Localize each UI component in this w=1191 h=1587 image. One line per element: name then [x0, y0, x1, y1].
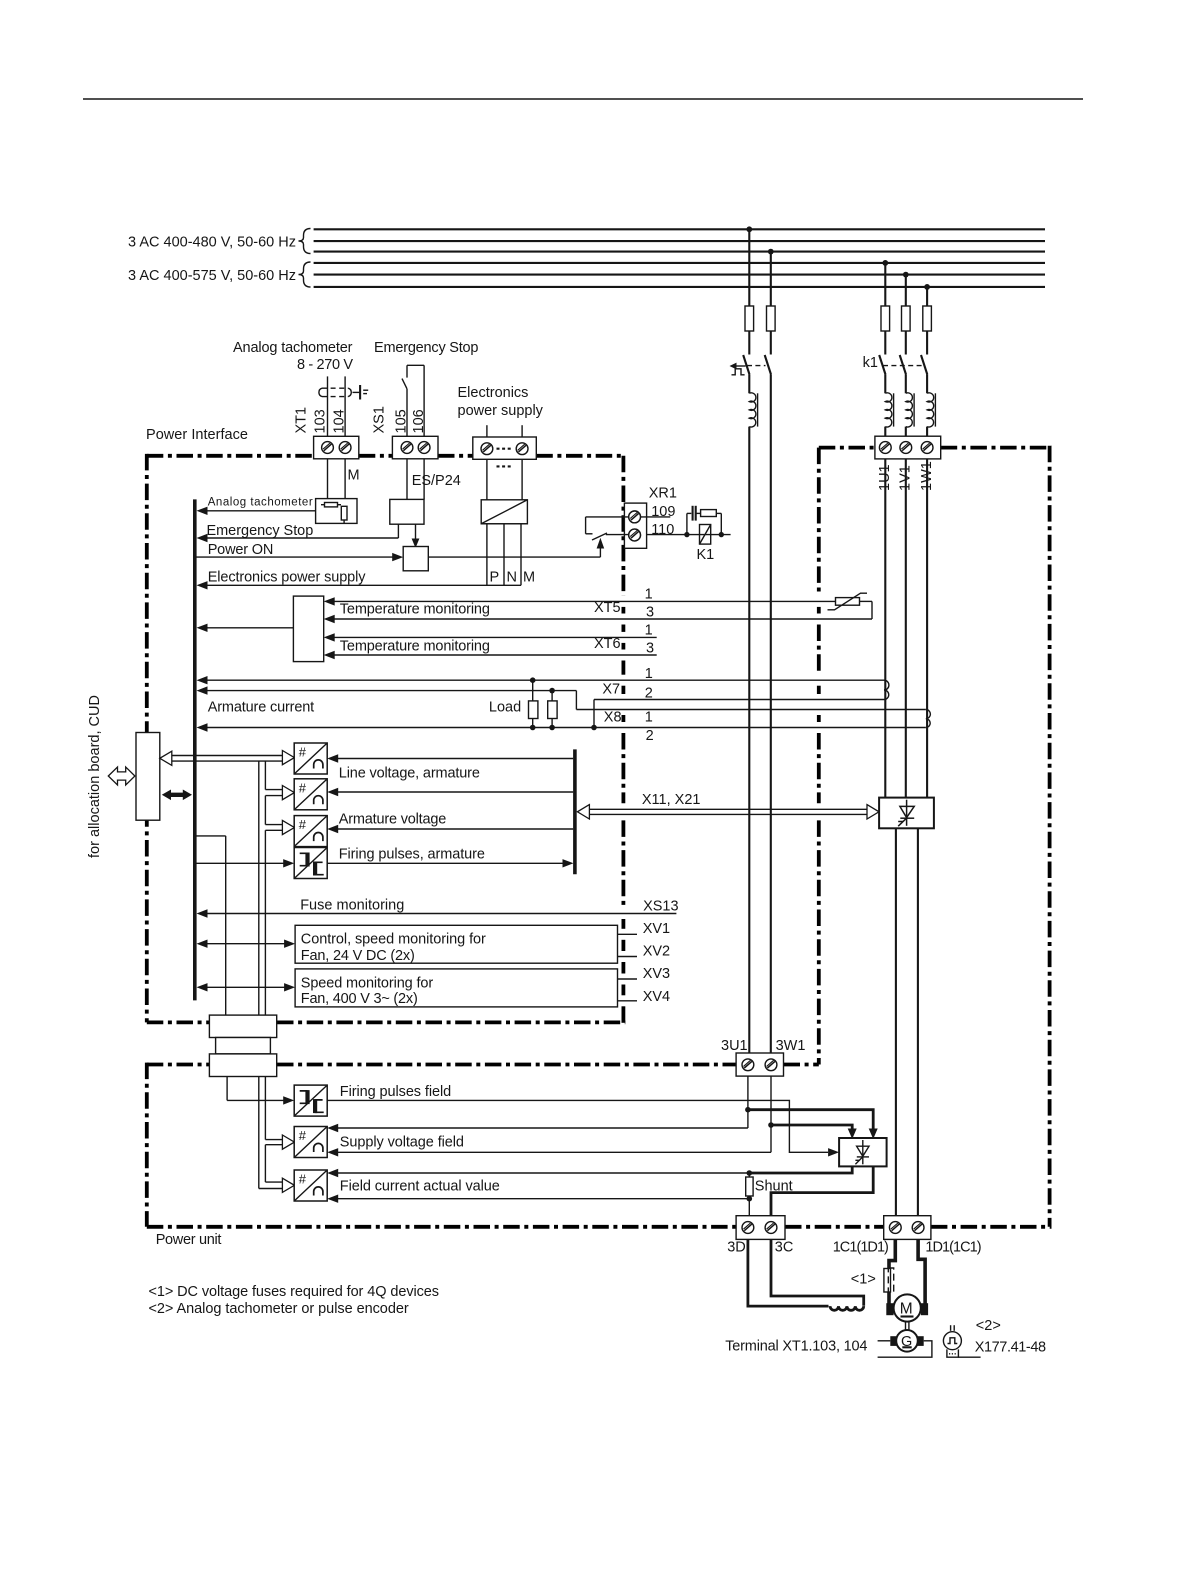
svg-text:Fan, 24 V DC (2x): Fan, 24 V DC (2x) [301, 948, 415, 964]
svg-text:1C1(1D1): 1C1(1D1) [833, 1240, 889, 1256]
shunt [747, 1170, 753, 1176]
board interconnect stack [209, 1015, 276, 1037]
svg-text:P: P [490, 570, 500, 586]
110 wire [606, 534, 629, 536]
field firing block F1 [294, 1085, 327, 1116]
wire field drop A upper [748, 229, 750, 306]
svg-text:105: 105 [393, 409, 409, 433]
wire XS1-105 to ES/P24 box [406, 459, 408, 500]
bus line L4 (400-575 set) [314, 262, 1045, 264]
contactor blade field B [765, 355, 771, 375]
svg-text:110: 110 [651, 522, 674, 538]
motor field winding 3C [771, 1239, 864, 1305]
svg-text:1: 1 [645, 587, 653, 603]
CUD branch vertical right seg3 [264, 830, 266, 1015]
firing pulses field line [327, 1100, 828, 1152]
svg-text:1: 1 [645, 709, 653, 725]
fuse FW [923, 306, 932, 331]
wire tacho 103 [327, 376, 329, 441]
X7/X8 crossover vertical [593, 700, 595, 728]
svg-text:Electronics: Electronics [458, 385, 529, 401]
pair into field block2 [265, 1139, 283, 1141]
power-on actuation arrow [599, 547, 601, 558]
K1 snubber R-C [686, 513, 688, 534]
arrow ES/P24 to power-on box [415, 524, 417, 539]
wires below fuses k1 [884, 331, 886, 355]
line bar to block3 [338, 828, 573, 830]
3W1 wire down [770, 1076, 772, 1152]
svg-text:Terminal XT1.103, 104: Terminal XT1.103, 104 [725, 1338, 867, 1354]
bus line L2 [314, 240, 1045, 242]
wire XT1-104 to tacho box [344, 459, 346, 499]
thermistor [836, 598, 860, 606]
bus line L1 (400-480 set) [314, 228, 1045, 230]
wire XS1-106 to ES/P24 box [423, 459, 425, 500]
branch to firing block 4 (from bus) [195, 835, 226, 837]
CT X8 [926, 710, 931, 728]
terminal 1U1 1V1 1W1 [875, 436, 941, 459]
field thyristor converter [839, 1138, 887, 1166]
XV stubs [618, 933, 638, 935]
Power Interface border left [145, 454, 149, 1023]
analog tachometer row line [206, 510, 316, 512]
svg-text:Analog tachometer: Analog tachometer [208, 497, 313, 509]
thyristor symbol armature [898, 800, 914, 827]
wire armature drop V upper [905, 275, 907, 306]
Power unit border left [145, 1063, 149, 1227]
wire armature drop W upper [926, 287, 928, 306]
svg-text:Armature voltage: Armature voltage [339, 812, 447, 828]
Power Interface border bottom [147, 1021, 210, 1025]
svg-text:Load: Load [489, 700, 521, 716]
node tap L4 armature [882, 260, 888, 266]
svg-text:<2> Analog tachometer or pulse: <2> Analog tachometer or pulse encoder [149, 1301, 409, 1317]
pair into block3 [265, 824, 283, 826]
tacho generator G [890, 1336, 897, 1346]
svg-text:Power unit: Power unit [156, 1232, 222, 1248]
svg-text:X7: X7 [602, 682, 620, 698]
wire below F1 [748, 331, 750, 355]
converter block U1 line voltage [294, 743, 327, 774]
K1 contact circuit: 109 wire [586, 516, 671, 518]
fuse FV [902, 306, 911, 331]
svg-text:k1: k1 [863, 355, 878, 371]
svg-text:2: 2 [646, 728, 654, 744]
svg-text:106: 106 [411, 409, 427, 433]
svg-text:3D: 3D [727, 1240, 746, 1256]
svg-text:N: N [507, 570, 517, 586]
svg-text:3U1: 3U1 [721, 1038, 748, 1054]
svg-text:X177.41-48: X177.41-48 [975, 1339, 1046, 1355]
fuse FU [881, 306, 890, 331]
electronics power supply row line [206, 584, 521, 586]
XT6 line 3 [334, 654, 657, 656]
svg-text:XR1: XR1 [649, 486, 677, 502]
svg-text:<1>: <1> [851, 1271, 876, 1287]
power ON row line [195, 556, 395, 558]
choke V [906, 393, 913, 427]
line bar to block2 [338, 791, 573, 793]
CUD-bus filled arrow [162, 790, 192, 801]
svg-text:XS1: XS1 [372, 406, 388, 433]
K1 wire [647, 534, 731, 536]
brace 400-480 [299, 229, 311, 254]
wires ePS terminal to converter [486, 459, 488, 500]
XT6 line 1 [334, 636, 657, 638]
terminal 3D 3C [736, 1216, 785, 1240]
node tap L1 field line [746, 226, 752, 232]
svg-text:Temperature monitoring: Temperature monitoring [340, 639, 490, 655]
contactor k1 link dashes [883, 365, 922, 367]
wires chokes to 1U1 block [884, 427, 886, 437]
Power unit border bottom [147, 1225, 736, 1229]
pair into field block3 [265, 1181, 283, 1183]
K1 contact blade [592, 533, 607, 540]
fan control box 1 [295, 925, 617, 963]
field AD block F2 [294, 1127, 327, 1158]
fan control box 2 [295, 969, 617, 1007]
Right box border top [819, 446, 875, 450]
line bar to block1 [338, 758, 573, 760]
svg-text:XV1: XV1 [643, 921, 670, 937]
wire field drop B upper [770, 252, 772, 306]
wire XT1-103 to tacho box [327, 459, 329, 499]
wires k1 to chokes [884, 375, 886, 394]
K1 relay coil [700, 525, 711, 545]
wires 1U1/1V1/1W1 to armature converter [884, 459, 886, 798]
terminal 1C1 1D1 [884, 1216, 931, 1240]
pulse encoder [950, 1325, 952, 1331]
svg-text:<2>: <2> [976, 1318, 1001, 1334]
tacho wires [878, 1340, 891, 1342]
pair into block2 [265, 789, 283, 791]
wire field A down to 3U1 [748, 427, 750, 1053]
wire tacho 104 [344, 376, 346, 441]
svg-text:Fan, 400 V 3~ (2x): Fan, 400 V 3~ (2x) [301, 991, 418, 1007]
bus line L6 [314, 286, 1045, 288]
node tap L5 armature [903, 272, 909, 278]
svg-text:K1: K1 [697, 547, 715, 563]
thyristor symbol field [855, 1140, 869, 1164]
CT X7 [884, 680, 889, 699]
field current line 2 [338, 1198, 749, 1200]
svg-text:power supply: power supply [458, 403, 544, 419]
converter block U2 armature voltage [294, 779, 327, 810]
svg-text:XV4: XV4 [643, 989, 670, 1005]
armature thyristor converter [879, 798, 934, 829]
X8 return line [206, 727, 926, 729]
svg-text:M: M [523, 570, 535, 586]
brace 400-575 [299, 262, 311, 287]
svg-text:Speed monitoring for: Speed monitoring for [301, 976, 434, 992]
Power Interface border top [147, 454, 314, 458]
line block4 to bar [327, 862, 564, 864]
contactor k1 blade V [900, 355, 906, 375]
supply voltage field line 1 [338, 1127, 748, 1129]
svg-text:8 - 270 V: 8 - 270 V [297, 357, 353, 373]
ePS converter box [481, 500, 527, 524]
svg-text:X8: X8 [604, 710, 622, 726]
svg-text:3: 3 [646, 605, 654, 621]
bus line L5 [314, 274, 1045, 276]
load resistor R2 [551, 691, 553, 701]
svg-text:1: 1 [645, 666, 653, 682]
bus line L3 [314, 251, 1045, 253]
X8 line 1 [576, 709, 925, 711]
CUD connector [136, 733, 160, 821]
wire below F2 [770, 331, 772, 355]
1D1 wire to motor [918, 1239, 925, 1303]
1C1 wire to motor [889, 1239, 895, 1268]
3U1 wire down [747, 1076, 749, 1128]
X7 line 2 [206, 690, 576, 692]
svg-text:103: 103 [313, 409, 329, 433]
svg-text:Fuse monitoring: Fuse monitoring [300, 898, 404, 914]
CUD branch vertical left [258, 761, 260, 1015]
contactor link dashes field [747, 365, 766, 367]
motor M [886, 1303, 893, 1315]
terminal XS1 [392, 436, 438, 459]
contactor k1 blade U [879, 355, 885, 375]
terminal 3U1 3W1 [736, 1053, 783, 1076]
svg-text:Line voltage, armature: Line voltage, armature [339, 765, 480, 781]
svg-text:3 AC 400-480 V, 50-60 Hz: 3 AC 400-480 V, 50-60 Hz [128, 235, 296, 251]
X7 line 1 [206, 679, 884, 681]
svg-text:104: 104 [332, 409, 348, 433]
svg-text:Emergency Stop: Emergency Stop [374, 340, 479, 356]
tacho brush connection [353, 391, 360, 393]
svg-text:for allocation board, CUD: for allocation board, CUD [87, 695, 103, 858]
node tap L6 armature [924, 284, 930, 290]
svg-text:X11, X21: X11, X21 [642, 792, 701, 808]
Power Interface border right (with gaps at line crossings) [622, 456, 626, 596]
Right box border right [1048, 446, 1052, 1227]
svg-text:Analog tachometer: Analog tachometer [233, 340, 353, 356]
svg-text:3W1: 3W1 [776, 1038, 806, 1054]
wire armature drop U upper [884, 263, 886, 306]
motor field winding 3D [748, 1239, 829, 1306]
svg-text:XT1: XT1 [294, 407, 310, 434]
choke U [885, 393, 892, 427]
firing block U4 [294, 848, 327, 879]
svg-text:1: 1 [645, 623, 653, 639]
svg-text:3C: 3C [775, 1240, 794, 1256]
svg-text:<1> DC voltage fuses required: <1> DC voltage fuses required for 4Q dev… [149, 1284, 440, 1300]
supply voltage field line 2 [338, 1151, 771, 1153]
svg-text:Temperature monitoring: Temperature monitoring [340, 602, 490, 618]
tachometer body oval [319, 388, 322, 396]
svg-text:Firing pulses, armature: Firing pulses, armature [339, 847, 485, 863]
firing armature input line [195, 862, 284, 864]
svg-text:XV3: XV3 [643, 966, 670, 982]
header rule [83, 98, 1083, 100]
choke L field A [749, 393, 756, 427]
wires below stack [226, 1077, 228, 1101]
field current line 1 [338, 1172, 749, 1174]
svg-text:XS13: XS13 [643, 899, 678, 915]
internal thick signal bus (CUD) [193, 499, 197, 1000]
fan box2 arrow line [206, 986, 287, 988]
load resistor R1 [532, 680, 534, 701]
field AD block F3 [294, 1170, 327, 1201]
emergency stop switch [406, 389, 408, 437]
CUD branch vertical right seg2 [264, 796, 266, 825]
terminal XT1 [314, 436, 359, 459]
terminal XR1 [624, 503, 646, 548]
XT5 line 1 [334, 600, 836, 602]
field converter output right to 3C [771, 1166, 873, 1215]
electronics power supply terminal [486, 425, 488, 440]
fan box1 arrow line [206, 943, 287, 945]
internal thick measuring bar [573, 749, 577, 874]
svg-text:Shunt: Shunt [755, 1179, 793, 1195]
contactor actuator arrow + pulse [736, 365, 746, 367]
fuse F1 [745, 306, 754, 331]
shaft [905, 1322, 907, 1331]
svg-text:XV2: XV2 [643, 944, 670, 960]
choke W [927, 393, 934, 427]
temperature monitoring box [206, 627, 293, 629]
analog tachometer input box [316, 499, 357, 524]
svg-text:Electronics power supply: Electronics power supply [208, 570, 367, 586]
svg-text:Firing pulses field: Firing pulses field [340, 1084, 451, 1100]
svg-text:Power Interface: Power Interface [146, 427, 248, 443]
fuse monitoring line [206, 913, 676, 915]
X7 return line [594, 699, 884, 701]
CUD double line to block1 [172, 755, 284, 757]
wires P N M [486, 524, 488, 586]
CUD branch to field blocks: vertical left [258, 1077, 260, 1189]
Power unit border top [147, 1063, 210, 1067]
svg-text:Armature current: Armature current [208, 700, 315, 716]
svg-text:XT5: XT5 [594, 600, 621, 616]
X11,X21 bus double line [589, 808, 868, 810]
fuse F2 [767, 306, 776, 331]
svg-text:1D1(1C1): 1D1(1C1) [925, 1240, 981, 1256]
emergency stop row line [397, 524, 399, 538]
node tap L3 field line [768, 249, 774, 255]
thick feed 3U1 to field converter [748, 1110, 873, 1131]
contactor k1 blade W [921, 355, 927, 375]
svg-text:3 AC 400-575 V, 50-60 Hz: 3 AC 400-575 V, 50-60 Hz [128, 268, 296, 284]
converter block U3 [294, 816, 327, 847]
svg-text:Supply voltage field: Supply voltage field [340, 1135, 464, 1151]
ES/P24 box [390, 499, 424, 524]
svg-text:Emergency Stop: Emergency Stop [207, 523, 314, 539]
fuse 1 (DC, 4Q) [884, 1269, 891, 1293]
svg-text:ES/P24: ES/P24 [412, 473, 461, 489]
svg-text:Control, speed monitoring for: Control, speed monitoring for [301, 932, 486, 948]
CUD external open arrow [108, 767, 135, 785]
wire field B down to 3W1 [770, 375, 772, 1054]
DC output wires [895, 828, 897, 1215]
CUD branch vertical right seg1 [264, 1077, 266, 1140]
svg-text:M: M [900, 1301, 913, 1318]
power ON logic box [403, 547, 428, 571]
CUD branch vertical right seg2 [264, 1145, 266, 1182]
svg-text:Power ON: Power ON [208, 542, 274, 558]
XT5 line 3 [334, 618, 872, 620]
svg-text:3: 3 [646, 641, 654, 657]
svg-text:2: 2 [645, 685, 653, 701]
field converter output left to shunt [749, 1166, 852, 1173]
svg-text:Field current actual value: Field current actual value [340, 1178, 500, 1194]
contactor blade field A [743, 355, 749, 375]
svg-text:M: M [348, 468, 360, 484]
Right box border left (with gaps) [817, 448, 821, 596]
thick feed 3W1 to field converter [771, 1125, 852, 1131]
CUD branch vertical right seg1 [264, 761, 266, 790]
wire field A to choke [748, 375, 750, 394]
svg-text:XT6: XT6 [594, 636, 621, 652]
